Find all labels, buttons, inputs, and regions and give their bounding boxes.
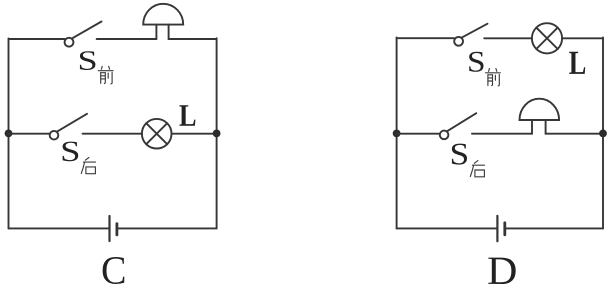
- wire D top-right segment: [562, 37, 603, 39]
- label 前 subscript of S前 (C): [98, 66, 113, 83]
- wire C bottom-right segment: [118, 227, 217, 229]
- wire D left edge: [396, 38, 398, 229]
- wire C top-left segment: [9, 38, 65, 40]
- node C right junction: [213, 130, 221, 138]
- lamp L (C): [142, 119, 172, 149]
- label 前 subscript of S前 (D): [486, 69, 501, 86]
- wire D top-left segment: [397, 37, 455, 39]
- wire D middle-left segment: [397, 133, 440, 135]
- switch S前 (C) pivot and blade: [65, 22, 102, 47]
- battery (D): [497, 216, 504, 241]
- wire D right edge: [602, 38, 604, 229]
- label 后 subscript of S后 (D): [470, 161, 484, 177]
- battery (C): [110, 216, 117, 241]
- label L lamp (C): [179, 105, 195, 126]
- wire D bottom-left segment: [397, 227, 497, 229]
- wire C middle-left segment: [9, 133, 50, 135]
- wire C middle-right segment: [172, 133, 217, 135]
- wire C top middle segment: [97, 38, 157, 40]
- label S of S前 (C): [80, 51, 96, 70]
- wire C right edge: [216, 38, 218, 228]
- bell (D): [520, 99, 560, 134]
- wire D middle segment: [472, 133, 532, 135]
- wire C left edge: [8, 39, 10, 229]
- wire D middle-right segment: [546, 133, 603, 135]
- wire D bottom-right segment: [506, 227, 603, 229]
- wire C top-right segment: [169, 38, 217, 40]
- switch S后 (C) pivot and blade: [50, 114, 87, 140]
- label S of S后 (D): [452, 144, 467, 165]
- node D left junction: [393, 130, 401, 138]
- wire D top middle segment: [484, 37, 532, 39]
- label S of S后 (C): [63, 142, 79, 162]
- label D circuit title: [488, 258, 515, 284]
- label L lamp (D): [569, 52, 585, 74]
- node C left junction: [5, 130, 13, 138]
- lamp L (D): [532, 23, 562, 53]
- node D right junction: [599, 130, 607, 138]
- label S of S前 (D): [469, 52, 483, 72]
- wire C middle segment: [83, 133, 142, 135]
- switch S前 (D) pivot and blade: [454, 24, 487, 46]
- label 后 subscript of S后 (C): [81, 158, 95, 174]
- bell (C): [143, 4, 183, 39]
- label C circuit title: [103, 257, 125, 284]
- switch S后 (D) pivot and blade: [440, 113, 476, 139]
- wire C bottom-left segment: [9, 227, 109, 229]
